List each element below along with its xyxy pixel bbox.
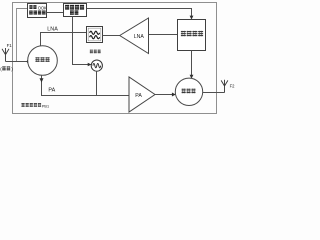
circulator X1 环形器 (left) — [28, 46, 58, 76]
wire oscillator G1 down to PA line — [96, 71, 98, 95]
svg-text:F2: F2 — [230, 84, 236, 89]
junction node on circulator X1 left port — [27, 60, 30, 63]
svg-text:PA: PA — [135, 93, 142, 99]
arrowhead into RF switch top — [190, 16, 194, 20]
wire transmit line to amplifier A2 (PA) — [41, 95, 129, 97]
svg-text:PA: PA — [48, 87, 55, 93]
op-amp triangle A1 (LNA), points left — [120, 18, 149, 54]
op-amp triangle A2 (PA), points right — [129, 77, 155, 112]
label 环形器 in X1 — [35, 57, 39, 58]
svg-text:OOK: OOK — [38, 5, 47, 10]
U2 label line2 模块 — [70, 10, 74, 11]
wire amplifier A2 to circulator X2, arrow right — [155, 94, 172, 96]
U1 label line1 第二 + OOK — [29, 5, 32, 6]
label 滤波器 under filter — [90, 49, 93, 52]
arrowhead into oscillator — [88, 63, 92, 67]
arrowhead into circulator X2 top — [190, 75, 194, 79]
label 射频开关 — [181, 31, 186, 32]
wire antenna AN1 to circulator X1 — [6, 61, 29, 63]
oscillator G1 (sine source) — [91, 60, 102, 71]
module U1: 第二OOK调制模块 box — [28, 4, 47, 18]
unit enclosure box (分布式单元PB1) — [13, 3, 217, 114]
filter wavy lines — [90, 31, 100, 34]
circulator X2 环形器 (right) — [175, 78, 202, 105]
control wire U2 to RF switch S1 — [87, 9, 192, 17]
svg-text:LNA: LNA — [134, 34, 145, 40]
label 环形器 in X2 — [182, 89, 186, 90]
wire U2 down to oscillator G1 — [73, 17, 89, 65]
U1 label line2 调制模块 — [29, 11, 33, 12]
label 分布式单元PB1 — [21, 102, 24, 105]
antenna AN2 with label F2 — [221, 80, 228, 93]
svg-text:LNA: LNA — [47, 27, 58, 33]
wire circulator X1 down to PA line, arrow down — [41, 75, 43, 95]
U2 label line1 第二同步 — [65, 5, 69, 6]
filter FL1 box (double border, wavy symbol) — [87, 27, 103, 43]
wire amplifier A1 to RF switch S1 — [149, 34, 178, 36]
RF switch S1 box 射频开关 — [178, 20, 206, 51]
wire filter FL1 to amplifier A1 (LNA) — [103, 35, 120, 37]
wire: circulator X1 top to filter FL1 (receive line) — [41, 33, 87, 47]
wire U1 to U2 — [47, 12, 64, 14]
module U2: 第二同步模块 box — [64, 4, 87, 17]
wire circulator X2 to antenna AN2 — [203, 92, 225, 94]
wire from module U1 left side down to antenna feed node — [17, 9, 28, 62]
svg-text:PB1: PB1 — [42, 104, 49, 108]
wire RF switch S1 down to circulator X2 — [191, 51, 193, 76]
svg-text:F1: F1 — [7, 43, 13, 48]
antenna AN1 with label F1 — [2, 48, 9, 62]
